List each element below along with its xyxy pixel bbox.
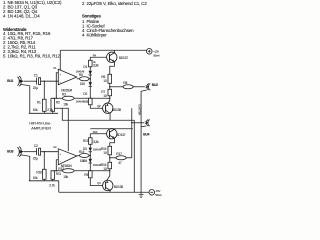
wire R6 to R7 (109, 83, 111, 89)
svg-text:BD137: BD137 (119, 56, 128, 60)
resistor R9 (84, 98, 92, 105)
capacitor C2 (33, 144, 41, 161)
svg-text:D2: D2 (83, 92, 87, 96)
node output ch2 (109, 157, 110, 158)
svg-text:10: 10 (103, 151, 107, 155)
wire output ch2 to R17 (110, 157, 116, 159)
svg-text:10k: 10k (33, 108, 38, 112)
wire BU1 shell to ground rail (20, 84, 30, 113)
op-amp U2 (53, 145, 77, 168)
transistor Q1 (107, 50, 129, 74)
resistor R10 (33, 169, 46, 180)
resistor R17 (116, 152, 126, 165)
text HiFi-RV-Line-AMPLIFIER (29, 120, 52, 130)
svg-text:R9: R9 (84, 173, 88, 177)
resistor R8 (123, 81, 133, 89)
wire R13 to D3 (89, 144, 91, 147)
resistor R5 (79, 73, 89, 86)
wire R8 to BU2 (133, 86, 145, 88)
node feedback end ch2 (109, 170, 110, 171)
svg-text:R3: R3 (62, 93, 66, 97)
svg-text:BU2: BU2 (152, 83, 158, 87)
parts list left column (3, 0, 62, 19)
svg-text:+15V: +15V (153, 49, 159, 53)
svg-text:BD137: BD137 (116, 133, 125, 137)
resistor R12 (58, 167, 74, 179)
diode D3 (83, 147, 102, 152)
wire D3 to midpoint ch2 (89, 152, 91, 159)
svg-text:R10: R10 (36, 170, 42, 174)
wire input ch1 (24, 80, 37, 82)
node feedback/R18 (90, 170, 91, 171)
svg-text:10: 10 (103, 94, 107, 98)
wire R1 to ground rail (43, 111, 45, 113)
diode D1 (76, 65, 92, 75)
svg-text:R17: R17 (116, 152, 122, 156)
resistor R13 (83, 138, 99, 145)
wire R2 to ground rail (52, 111, 54, 113)
wire output to R8 (110, 86, 123, 88)
svg-text:NE5534: NE5534 (61, 88, 72, 92)
svg-text:C1: C1 (34, 73, 38, 77)
node feedback/R9 (90, 98, 91, 99)
resistor R1 (33, 99, 46, 112)
svg-text:10k: 10k (33, 176, 38, 180)
ground (139, 192, 144, 197)
node BU2 (145, 83, 158, 90)
ground rail ch2 (29, 180, 59, 182)
wire D1 to midpoint (89, 75, 91, 82)
wire inv input stub (56, 73, 58, 99)
node BU3 (7, 147, 24, 157)
svg-text:R1: R1 (37, 100, 41, 104)
wire R18 to Q4 base (90, 178, 105, 186)
plus rail ch2 (90, 128, 133, 130)
wire V- link (54, 108, 68, 151)
wire BU2 shell to ground bus (141, 90, 147, 192)
node BU1 (7, 76, 24, 86)
svg-text:1N4148: 1N4148 (76, 69, 85, 73)
wire C1 to op-amp (41, 80, 59, 82)
svg-text:R2: R2 (56, 100, 60, 104)
svg-text:47: 47 (118, 161, 122, 165)
minus rail ch1 (62, 108, 134, 120)
svg-text:2,7k: 2,7k (47, 108, 53, 112)
svg-text:10k: 10k (63, 175, 68, 179)
-15V terminal (149, 189, 162, 197)
wire base Q1 (90, 56, 109, 58)
resistor R11 (49, 171, 61, 188)
minus rail ch2 (59, 191, 149, 193)
capacitor C1 (33, 73, 41, 90)
svg-text:D1: D1 (83, 65, 87, 69)
svg-text:R13: R13 (93, 130, 98, 134)
wire down to R1 (43, 81, 45, 99)
svg-text:BU4: BU4 (143, 132, 149, 136)
wire inv input stub ch2 (56, 160, 58, 171)
wire C2 to op-amp U2 (41, 151, 59, 153)
svg-text:22µ: 22µ (33, 156, 38, 160)
svg-text:ELV07334: ELV07334 (138, 104, 142, 115)
wire U1 output (77, 78, 80, 80)
wire base Q3 (90, 133, 109, 135)
svg-text:R13: R13 (83, 139, 89, 143)
wire R4 to D1 (89, 67, 91, 71)
svg-text:50mA: 50mA (153, 53, 160, 57)
wire R9 to Q2 base (90, 105, 105, 109)
svg-text:R9: R9 (84, 100, 88, 104)
svg-text:2,7k: 2,7k (49, 183, 55, 187)
wire R10 to ground rail (43, 179, 45, 181)
wire feedback line ch2 (53, 170, 63, 172)
svg-text:BU1: BU1 (7, 79, 13, 83)
svg-text:3,3k: 3,3k (93, 140, 99, 144)
svg-text:R5: R5 (79, 73, 83, 77)
svg-text:150: 150 (80, 82, 85, 86)
svg-text:C2: C2 (34, 144, 38, 148)
wire BU4 shell to ground bus (141, 125, 146, 128)
svg-text:10k: 10k (63, 102, 68, 106)
node diode midpoint ch2 (90, 155, 91, 156)
minus bus vertical (133, 120, 135, 192)
node BU4 (143, 120, 150, 137)
resistor R3 (62, 93, 74, 107)
svg-text:-15V: -15V (155, 189, 160, 193)
svg-text:AMPLIFIER: AMPLIFIER (31, 125, 51, 130)
+15V terminal (146, 48, 159, 57)
wire U2 output (77, 154, 80, 156)
svg-text:R11: R11 (56, 172, 62, 176)
wire R11 to ground rail (52, 179, 54, 181)
svg-text:BD138: BD138 (114, 185, 123, 189)
svg-text:10: 10 (103, 79, 107, 83)
op-amp U1 (53, 66, 77, 93)
diode D4 (83, 159, 101, 167)
svg-text:Sonstiges: Sonstiges (82, 14, 101, 19)
wire D2 to R9 (89, 86, 91, 98)
wire R7 to Q2 emitter (106, 96, 110, 105)
svg-text:4 Kühlkörper: 4 Kühlkörper (82, 33, 107, 38)
wire D4 to R18 (89, 163, 91, 171)
wire down to R10 (43, 152, 45, 170)
svg-text:BD138: BD138 (112, 108, 121, 112)
resistor R15 (101, 146, 112, 155)
wire R14 to diode node ch2 (89, 154, 90, 156)
wire R5 to diode node (89, 78, 90, 80)
resistor R18 (84, 171, 92, 178)
wire bias column top ch2 (89, 134, 91, 138)
resistor R2 (47, 98, 60, 112)
node output ch1 (109, 86, 110, 87)
resistor R7 (101, 89, 111, 98)
svg-text:R8: R8 (123, 81, 127, 85)
wire R16 to Q4 emitter (106, 169, 110, 182)
svg-text:22µ: 22µ (33, 86, 38, 90)
transistor Q4 (97, 180, 123, 192)
wire R15 to R16 (109, 155, 111, 163)
resistor R14 (79, 150, 89, 163)
node junction input/R10 (44, 151, 45, 152)
resistor R16 (101, 162, 112, 171)
node feedback/R11 (56, 170, 57, 171)
resistor R6 (101, 74, 111, 83)
wire link to BU4 (131, 108, 133, 158)
svg-text:D4: D4 (83, 159, 87, 163)
svg-text:2 22µF/25 V, Elko, stehend C1: 2 22µF/25 V, Elko, stehend C1, C2 (82, 1, 147, 6)
svg-text:4 1N 4148, D1...D4: 4 1N 4148, D1...D4 (3, 14, 40, 19)
svg-text:50mA: 50mA (155, 193, 162, 197)
diode D2 (76, 82, 92, 104)
node feedback/R2 (56, 98, 57, 99)
wire feedback line ch1 (53, 97, 63, 99)
svg-text:10: 10 (103, 167, 107, 171)
svg-text:D3: D3 (83, 147, 87, 151)
+15V rail (60, 49, 146, 51)
resistor R4 (88, 60, 99, 68)
wire R17 to BU4 link (126, 157, 132, 159)
ground rail ch1 (29, 112, 58, 114)
wire input ch2 (24, 151, 37, 153)
node diode midpoint (90, 78, 91, 79)
transistor Q2 (97, 103, 121, 120)
wire BU3 shell to ground rail ch2 (20, 155, 30, 181)
svg-text:BU3: BU3 (7, 149, 13, 153)
resistor list (3, 31, 61, 59)
node junction input/R1 (44, 80, 45, 81)
wire op-amp U1 V+ (59, 50, 61, 71)
svg-text:NE5534: NE5534 (61, 164, 72, 168)
transistor Q3 (107, 129, 126, 147)
svg-text:5 10kΩ, R1, R3, R9, R10, R12: 5 10kΩ, R1, R3, R9, R10, R12 (3, 54, 61, 59)
node feedback end (109, 98, 110, 99)
wire bias column top (89, 57, 91, 60)
svg-text:3,3k: 3,3k (93, 64, 99, 68)
